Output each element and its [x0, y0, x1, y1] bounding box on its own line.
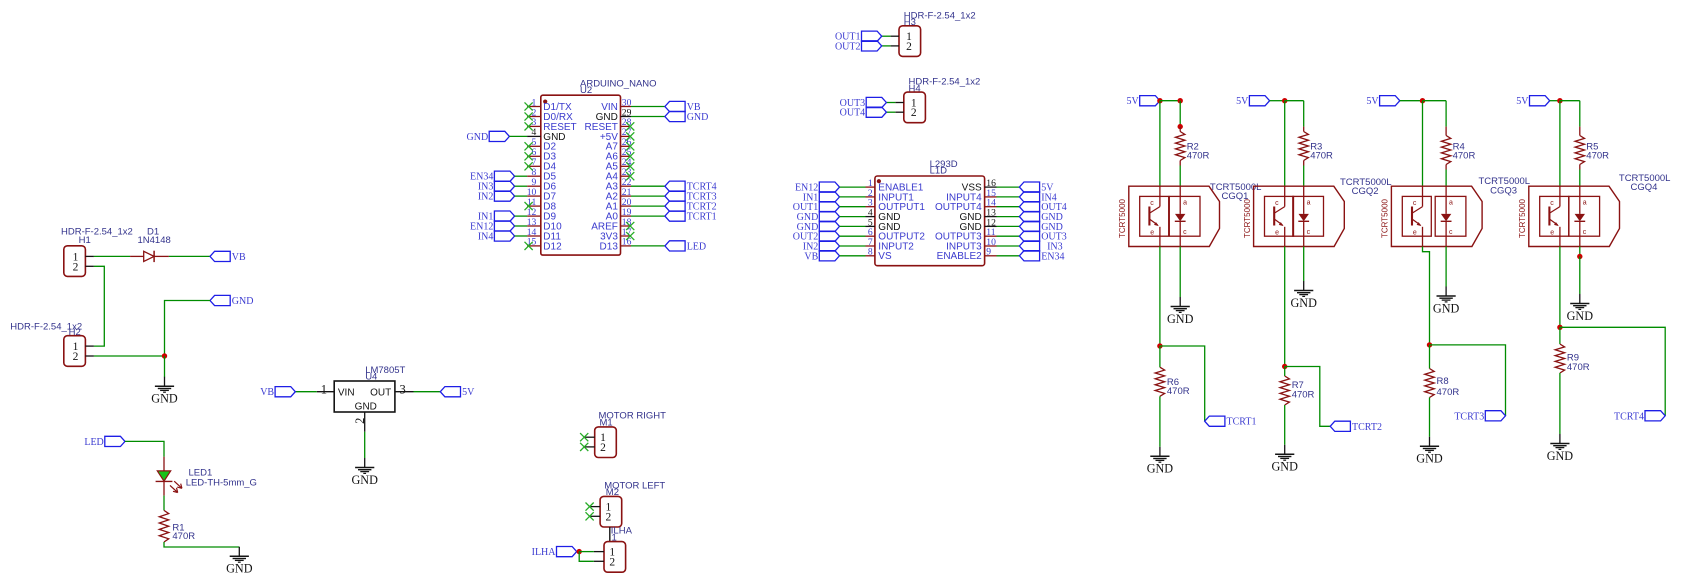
svg-text:GND: GND	[151, 392, 178, 406]
svg-text:1N4148: 1N4148	[138, 235, 171, 246]
net flag VB	[665, 101, 701, 113]
svg-text:L1D: L1D	[930, 166, 948, 177]
net flag TCRT4	[1614, 411, 1665, 423]
wire U2 to GND	[631, 116, 665, 118]
resistor R4	[1441, 127, 1450, 170]
svg-text:e: e	[1413, 229, 1417, 236]
svg-text:GND: GND	[1271, 460, 1298, 474]
net flag IN3	[478, 181, 515, 193]
svg-text:470R: 470R	[1453, 151, 1476, 162]
wire GND to U2.4	[509, 135, 527, 137]
no-connect crosses U2 left	[525, 102, 533, 250]
svg-text:TCRT5000: TCRT5000	[1518, 198, 1527, 238]
net flag 5V at L1D.16	[1019, 182, 1054, 194]
driver L1D right pins 9-16	[935, 178, 996, 262]
svg-text:470R: 470R	[1437, 387, 1460, 398]
wire junction to R9	[1559, 327, 1561, 344]
wire tap to TCRT2	[1285, 367, 1331, 427]
wire 5V to R4 ch3	[1423, 100, 1447, 102]
svg-text:TCRT3: TCRT3	[1454, 411, 1484, 422]
connector H3	[891, 26, 921, 57]
optocoupler CGQ2 package TCRT5000	[1243, 186, 1345, 246]
svg-text:TCRT5000: TCRT5000	[1243, 198, 1252, 238]
svg-text:470R: 470R	[1567, 362, 1590, 373]
wire junction to ground	[164, 356, 166, 377]
wire ILHA to I1.2	[579, 552, 594, 562]
optocoupler CGQ1 labels TCRT5000L	[1210, 182, 1262, 202]
net flag TCRT3	[1454, 411, 1505, 423]
ground below R1	[226, 547, 253, 576]
svg-text:CGQ3: CGQ3	[1490, 185, 1517, 196]
svg-text:CGQ2: CGQ2	[1352, 186, 1379, 197]
wire R5 to opto LED anode	[1579, 170, 1581, 187]
ground LED cathode ch1	[1167, 297, 1194, 326]
svg-text:2: 2	[73, 261, 79, 273]
net flag OUT4	[840, 107, 887, 119]
U4 pin 3	[395, 382, 414, 396]
LED LED1	[156, 457, 182, 496]
svg-text:c: c	[1307, 229, 1311, 236]
svg-text:GND: GND	[1567, 309, 1594, 323]
svg-text:470R: 470R	[1586, 151, 1609, 162]
svg-text:OUT4: OUT4	[840, 108, 866, 119]
svg-text:GND: GND	[1147, 462, 1174, 476]
mcu U2 labels ARDUINO_NANO	[580, 78, 657, 96]
svg-text:IN4: IN4	[478, 232, 494, 243]
wire R2 to opto LED anode	[1179, 166, 1181, 187]
svg-text:5V: 5V	[1236, 96, 1249, 107]
svg-text:GND: GND	[1290, 296, 1317, 310]
wire cathode to ground ch4	[1579, 257, 1581, 295]
resistor R1	[159, 510, 168, 542]
wire cathode ch4	[1579, 247, 1581, 257]
svg-text:c: c	[1183, 229, 1187, 236]
svg-text:e: e	[1550, 229, 1554, 236]
wire 5V to R3 ch2	[1285, 100, 1304, 102]
svg-text:2: 2	[73, 351, 79, 363]
svg-text:5V: 5V	[462, 387, 475, 398]
wire tap to TCRT3	[1430, 345, 1506, 416]
junction 5V collector ch4	[1557, 98, 1562, 103]
svg-text:8: 8	[868, 247, 873, 258]
wire cathode to ground ch3	[1445, 247, 1447, 287]
svg-text:H2: H2	[69, 327, 81, 338]
wire R6 to ground	[1159, 396, 1161, 447]
wire VB to L1D.8	[840, 255, 866, 257]
connector M2 labels MOTOR LEFT	[604, 481, 665, 499]
wire 5V to junction ch3	[1400, 100, 1423, 102]
wire R1 to ground	[164, 542, 239, 547]
U4 pin 2	[353, 412, 367, 432]
optocoupler CGQ4 package TCRT5000	[1518, 186, 1620, 246]
svg-text:CGQ4: CGQ4	[1631, 182, 1658, 193]
svg-text:1: 1	[321, 382, 327, 396]
svg-text:e: e	[1275, 229, 1279, 236]
resistor R8	[1425, 369, 1434, 398]
net flag GND at L1D.13	[1019, 212, 1062, 224]
ground below R8 ch3	[1416, 437, 1443, 466]
wire 5V junction down to collector ch3	[1422, 101, 1424, 187]
svg-text:9: 9	[986, 247, 991, 258]
junction emitter tap ch3	[1427, 342, 1432, 347]
wire GND flag down to junction	[165, 301, 211, 357]
ground LED cathode ch2	[1290, 281, 1317, 310]
svg-text:5V: 5V	[1366, 96, 1379, 107]
wire U4 GND to ground	[364, 432, 366, 458]
net flag TCRT1	[665, 211, 717, 223]
U4 pin 1	[317, 382, 334, 396]
resistor R6	[1155, 367, 1164, 396]
svg-text:470R: 470R	[1310, 151, 1333, 162]
diode D1 labels 1N4148	[138, 226, 171, 246]
svg-text:TCRT5000: TCRT5000	[1118, 198, 1127, 238]
mcu U2 body	[541, 95, 621, 255]
net flag GND at L1D.5	[797, 221, 840, 233]
net flag OUT3 at L1D.11	[1019, 231, 1066, 243]
ground LED cathode ch4	[1567, 294, 1594, 323]
ground below R6 ch1	[1147, 447, 1174, 476]
junction ILHA node	[577, 549, 582, 554]
wire H2.2 to junction	[94, 355, 165, 357]
svg-text:TCRT1: TCRT1	[687, 212, 717, 223]
connector I1 labels ILHA	[610, 526, 633, 544]
wire R9 to ground	[1559, 373, 1561, 434]
regulator U4 LM7805	[334, 381, 395, 412]
net flag GND	[467, 131, 510, 143]
wire emitter to junction ch2	[1284, 247, 1286, 367]
svg-text:GND: GND	[351, 473, 378, 487]
svg-text:IN2: IN2	[478, 192, 494, 203]
svg-text:R8: R8	[1437, 376, 1449, 387]
wire down to R4	[1445, 101, 1447, 127]
svg-text:c: c	[1550, 200, 1554, 207]
mcu U2 left pins 1-15 with numbers and names	[527, 97, 577, 252]
resistor R4 labels 470R	[1453, 142, 1476, 162]
junction 5V collector ch1	[1157, 98, 1162, 103]
junction emitter tap ch1	[1157, 343, 1162, 348]
wire LED1 cathode to R1	[163, 496, 165, 511]
junction at R2 top	[1178, 124, 1183, 129]
connector H4 labels HDR-F-2.54_1x2	[909, 77, 981, 95]
junction GND node	[162, 353, 167, 358]
driver L1D labels L293D	[930, 159, 958, 176]
connector M2	[590, 496, 622, 527]
svg-text:TCRT1: TCRT1	[1227, 417, 1257, 428]
resistor R2	[1176, 127, 1185, 166]
svg-text:ENABLE2: ENABLE2	[937, 251, 982, 262]
resistor R5 labels 470R	[1586, 142, 1609, 162]
regulator U4 labels LM7805T	[365, 365, 405, 383]
wire H2.1 to H1.2	[94, 266, 104, 346]
wire R4 to opto LED anode	[1445, 170, 1447, 187]
mcu U2 right pins 16-30 with numbers and names	[585, 97, 632, 252]
wire OUT2 to H3.2	[882, 45, 891, 47]
wire 5V to R5 ch4	[1560, 100, 1580, 102]
net flag IN2	[478, 191, 515, 203]
svg-text:GND: GND	[1547, 449, 1574, 463]
wire R7 to ground	[1284, 405, 1286, 445]
wire L1D.13 to GND	[997, 216, 1020, 218]
svg-text:GND: GND	[1167, 312, 1194, 326]
net flag IN1	[478, 211, 515, 223]
wire ILHA to I1.1	[579, 551, 594, 553]
wire U2 to VB	[631, 106, 665, 108]
wire L1D.16 to 5V	[997, 186, 1020, 188]
wire L1D.11 to OUT3	[997, 235, 1020, 237]
wire down to R5	[1579, 101, 1581, 127]
resistor R9	[1555, 344, 1564, 373]
wire L1D.10 to IN3	[997, 245, 1020, 247]
svg-text:VB: VB	[232, 252, 246, 263]
wire 5V to junction ch4	[1550, 100, 1560, 102]
wire cathode to ground ch1	[1179, 247, 1181, 298]
svg-text:c: c	[1150, 200, 1154, 207]
svg-text:LED: LED	[84, 437, 103, 448]
wire emitter to junction ch4	[1559, 247, 1561, 328]
net flag 5V channel 4	[1516, 96, 1549, 108]
net flag VB at L1D.8	[804, 251, 839, 263]
net flag EN34 at L1D.9	[1019, 251, 1064, 263]
wire GND to L1D.5	[840, 225, 866, 227]
net flag TCRT2	[1330, 421, 1382, 433]
net flag OUT4 at L1D.14	[1019, 202, 1066, 214]
wire junction to R8	[1429, 345, 1431, 369]
wire U2 to LED	[631, 245, 665, 247]
svg-text:2: 2	[353, 418, 367, 424]
net flag GND at L1D.12	[1019, 221, 1062, 233]
svg-text:a: a	[1183, 200, 1187, 207]
net flag IN3 at L1D.10	[1019, 241, 1062, 253]
junction 5V collector ch2	[1282, 98, 1287, 103]
connector H1 labels HDR-F-2.54_1x2	[61, 226, 133, 246]
wire U2 to TCRT4	[631, 185, 665, 187]
wire OUT3 to H4.1	[886, 102, 895, 104]
resistor R7	[1280, 376, 1289, 405]
wire U2 to TCRT2	[631, 205, 665, 207]
svg-text:GND: GND	[687, 112, 709, 123]
net flag LED	[665, 241, 706, 253]
wire down to R2	[1179, 101, 1181, 127]
wire 5V junction down to collector ch4	[1559, 101, 1561, 187]
svg-text:5V: 5V	[1516, 96, 1529, 107]
ground below U4	[351, 458, 378, 487]
svg-text:2: 2	[906, 41, 912, 53]
resistor R8 labels 470R	[1437, 376, 1460, 398]
svg-text:OUT2: OUT2	[835, 41, 861, 52]
svg-text:ILHA: ILHA	[532, 547, 557, 558]
net flag 5V channel 1	[1126, 96, 1159, 108]
ground below R9 ch4	[1547, 434, 1574, 463]
junction cathode ch4	[1577, 254, 1582, 259]
svg-text:GND: GND	[1416, 452, 1443, 466]
svg-text:e: e	[1150, 229, 1154, 236]
ground below R7 ch2	[1271, 445, 1298, 474]
junction 5V collector ch3	[1420, 98, 1425, 103]
net flag 5V channel 3	[1366, 96, 1399, 108]
wire IN2 to U2.10	[515, 195, 528, 197]
wire tap to TCRT4	[1560, 327, 1665, 416]
wire junction to R6	[1159, 346, 1161, 367]
net flag TCRT1	[1205, 416, 1257, 428]
wire L1D.12 to GND	[997, 225, 1020, 227]
connector H2 labels HDR-F-2.54_1x2	[10, 322, 82, 339]
net flag LED	[84, 436, 125, 448]
svg-text:a: a	[1307, 200, 1311, 207]
connector M1	[584, 427, 616, 458]
net flag 5V	[440, 387, 475, 399]
wire U2 to TCRT1	[631, 215, 665, 217]
resistor R6 labels 470R	[1167, 377, 1190, 397]
wire IN4 to U2.14	[515, 235, 528, 237]
svg-text:c: c	[1413, 200, 1417, 207]
resistor R1 labels 470R	[172, 522, 195, 542]
svg-text:a: a	[1449, 200, 1453, 207]
net flag IN4	[478, 231, 515, 243]
svg-text:VIN: VIN	[338, 387, 355, 398]
svg-text:470R: 470R	[172, 531, 195, 542]
junction emitter tap ch2	[1282, 364, 1287, 369]
optocoupler CGQ4 labels TCRT5000L	[1619, 173, 1671, 193]
net flag GND	[210, 295, 253, 307]
net flag VB	[210, 251, 246, 263]
net flag GND	[665, 111, 708, 123]
wire 5V to R2 ch1	[1160, 100, 1180, 102]
net flag 5V channel 2	[1236, 96, 1269, 108]
ground below H2	[151, 377, 178, 406]
resistor R3	[1299, 127, 1308, 166]
resistor R9 labels 470R	[1567, 352, 1590, 372]
svg-text:H1: H1	[79, 235, 91, 246]
svg-text:16: 16	[622, 237, 632, 248]
resistor R5	[1575, 127, 1584, 170]
wire OUT1 to H3.1	[882, 35, 891, 37]
svg-text:TCRT4: TCRT4	[1614, 411, 1644, 422]
net flag EN34	[470, 171, 515, 183]
wire L1D.9 to EN34	[997, 255, 1020, 257]
net flag OUT2 at L1D.6	[793, 231, 840, 243]
svg-text:470R: 470R	[1187, 151, 1210, 162]
wire IN3 to U2.9	[515, 185, 528, 187]
driver L1D left pins 1-8	[866, 178, 926, 262]
optocoupler CGQ1 package TCRT5000	[1118, 186, 1220, 246]
svg-text:HDR-F-2.54_1x2: HDR-F-2.54_1x2	[61, 226, 133, 237]
svg-text:D13: D13	[600, 241, 619, 252]
svg-text:VB: VB	[804, 251, 818, 262]
net flag GND at L1D.4	[797, 212, 840, 224]
optocoupler CGQ2 labels TCRT5000L	[1340, 177, 1392, 197]
svg-text:GND: GND	[226, 562, 253, 576]
svg-text:EN34: EN34	[1041, 251, 1064, 262]
optocoupler CGQ3 labels TCRT5000L	[1479, 176, 1531, 196]
connector H3 labels HDR-F-2.54_1x2	[904, 10, 976, 28]
no-connect crosses M1	[580, 433, 588, 451]
svg-text:VB: VB	[260, 387, 274, 398]
driver L1D body	[875, 176, 985, 266]
wire U2 to TCRT3	[631, 195, 665, 197]
net flag OUT1	[835, 31, 882, 43]
wire IN1 to L1D.2	[840, 196, 866, 198]
net flag TCRT2	[665, 201, 717, 213]
wire IN2 to L1D.7	[840, 245, 866, 247]
net flag ILHA	[532, 547, 577, 559]
resistor R7 labels 470R	[1292, 380, 1315, 400]
wire LED flag to LED1 anode	[125, 441, 164, 456]
no-connect crosses M2	[586, 503, 594, 521]
connector H2	[64, 336, 94, 367]
net flag TCRT4	[665, 181, 717, 193]
wire emitter to junction ch3	[1423, 247, 1430, 345]
svg-text:2: 2	[606, 511, 612, 523]
junction emitter tap ch4	[1557, 325, 1562, 330]
wire OUT2 to L1D.6	[840, 235, 866, 237]
wire R8 to ground	[1429, 398, 1431, 437]
connector I1	[594, 542, 626, 573]
wire cathode to ground ch2	[1303, 247, 1305, 282]
resistor R2 labels 470R	[1187, 142, 1210, 162]
svg-text:OUT: OUT	[370, 387, 391, 398]
ground LED cathode ch3	[1433, 287, 1460, 316]
wire GND to L1D.4	[840, 216, 866, 218]
svg-text:LED: LED	[687, 241, 706, 252]
resistor R3 labels 470R	[1310, 142, 1333, 162]
wire EN34 to U2.8	[515, 175, 528, 177]
wire 5V junction down to collector ch2	[1284, 101, 1286, 187]
net flag VB	[260, 387, 295, 399]
svg-text:GND: GND	[1433, 301, 1460, 315]
wire IN1 to U2.12	[515, 215, 528, 217]
svg-text:D12: D12	[543, 241, 562, 252]
wire EN12 to U2.13	[515, 225, 528, 227]
wire junction to R7	[1284, 367, 1286, 377]
wire 5V to junction ch2	[1270, 100, 1285, 102]
wire emitter to junction ch1	[1159, 247, 1161, 347]
wire VB to U4 VIN	[295, 391, 317, 393]
svg-text:GND: GND	[355, 401, 377, 412]
wire L1D.15 to IN4	[997, 196, 1020, 198]
junction corner above R2	[1178, 98, 1183, 103]
svg-text:c: c	[1275, 200, 1279, 207]
wire tap to TCRT1	[1160, 346, 1205, 421]
connector M1 labels MOTOR RIGHT	[599, 411, 667, 429]
wire R3 to opto LED anode	[1303, 166, 1305, 187]
svg-text:GND: GND	[232, 296, 254, 307]
svg-text:a: a	[1583, 200, 1587, 207]
wire down to R3	[1303, 101, 1305, 127]
net flag IN4 at L1D.15	[1019, 192, 1056, 204]
wire OUT1 to L1D.3	[840, 206, 866, 208]
svg-text:c: c	[1583, 229, 1587, 236]
optocoupler CGQ3 package TCRT5000	[1381, 186, 1483, 246]
net flag EN12	[470, 221, 515, 233]
diode D1	[130, 251, 169, 262]
svg-text:470R: 470R	[1292, 389, 1315, 400]
wire D1 cathode to VB	[169, 255, 210, 257]
connector H4	[895, 92, 925, 123]
svg-text:VS: VS	[878, 251, 892, 262]
wire U4 OUT to 5V	[414, 391, 441, 393]
net flag TCRT3	[665, 191, 717, 203]
wire EN12 to L1D.1	[840, 186, 866, 188]
svg-text:3: 3	[400, 382, 406, 396]
net flag EN12 at L1D.1	[795, 182, 840, 194]
net flag OUT1 at L1D.3	[793, 202, 840, 214]
svg-text:TCRT5000: TCRT5000	[1381, 198, 1390, 238]
LED LED1 labels LED-TH-5mm_G	[186, 467, 257, 488]
net flag IN2 at L1D.7	[803, 241, 840, 253]
wire 5V junction down to collector ch1	[1159, 101, 1161, 187]
svg-text:TCRT2: TCRT2	[1352, 422, 1382, 433]
svg-text:470R: 470R	[1167, 386, 1190, 397]
